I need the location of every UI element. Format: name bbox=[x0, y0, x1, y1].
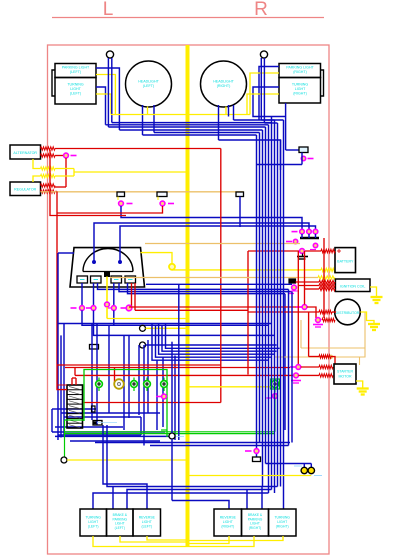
svg-text:LIGHT: LIGHT bbox=[223, 520, 233, 524]
svg-text:(RIGHT): (RIGHT) bbox=[293, 92, 307, 96]
svg-text:(LEFT): (LEFT) bbox=[115, 526, 125, 530]
svg-text:LIGHT: LIGHT bbox=[88, 520, 98, 524]
svg-text:TURNING: TURNING bbox=[292, 83, 309, 87]
svg-text:(RIGHT): (RIGHT) bbox=[249, 526, 261, 530]
svg-text:(LEFT): (LEFT) bbox=[88, 525, 99, 529]
svg-text:STARTER: STARTER bbox=[337, 370, 353, 374]
svg-text:(LEFT): (LEFT) bbox=[70, 70, 81, 74]
svg-text:REVERSE: REVERSE bbox=[139, 516, 156, 520]
svg-text:(RIGHT): (RIGHT) bbox=[221, 525, 234, 529]
svg-text:MOTOR: MOTOR bbox=[339, 375, 352, 379]
svg-text:PARKING LIGHT: PARKING LIGHT bbox=[62, 66, 90, 70]
svg-text:REGULATOR: REGULATOR bbox=[14, 188, 36, 192]
svg-text:(RIGHT): (RIGHT) bbox=[293, 70, 307, 74]
svg-text:LIGHT: LIGHT bbox=[70, 87, 81, 91]
svg-text:(RIGHT): (RIGHT) bbox=[217, 84, 231, 88]
svg-text:PARKING LIGHT: PARKING LIGHT bbox=[286, 66, 314, 70]
svg-text:(LEFT): (LEFT) bbox=[70, 92, 81, 96]
svg-text:HEADLIGHT: HEADLIGHT bbox=[213, 80, 234, 84]
svg-text:(RIGHT): (RIGHT) bbox=[276, 525, 289, 529]
svg-text:(LEFT): (LEFT) bbox=[142, 525, 153, 529]
svg-text:REVERSE: REVERSE bbox=[220, 516, 237, 520]
svg-text:TURNING: TURNING bbox=[274, 516, 290, 520]
svg-text:DISTRIBUTOR: DISTRIBUTOR bbox=[336, 311, 360, 315]
svg-text:ALTERNATOR: ALTERNATOR bbox=[13, 151, 37, 155]
svg-text:IGNITION COIL: IGNITION COIL bbox=[340, 284, 365, 288]
svg-text:TURNING: TURNING bbox=[85, 516, 101, 520]
svg-text:HEADLIGHT: HEADLIGHT bbox=[138, 80, 159, 84]
svg-text:LIGHT: LIGHT bbox=[142, 520, 152, 524]
svg-text:BATTERY: BATTERY bbox=[337, 260, 354, 264]
svg-text:LIGHT: LIGHT bbox=[295, 87, 306, 91]
svg-text:LIGHT: LIGHT bbox=[277, 520, 287, 524]
svg-text:TURNING: TURNING bbox=[67, 83, 84, 87]
svg-text:(LEFT): (LEFT) bbox=[143, 84, 154, 88]
